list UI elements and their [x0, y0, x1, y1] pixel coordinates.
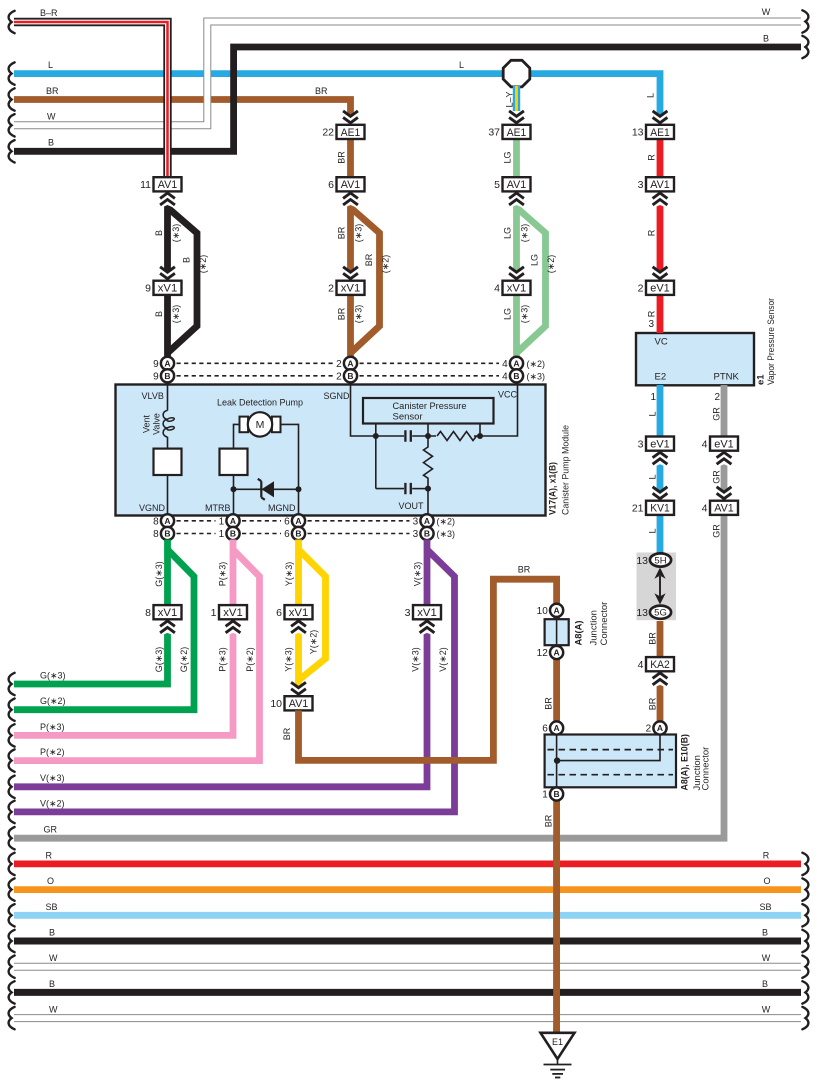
svg-text:5H: 5H — [654, 556, 666, 567]
svg-text:AV1: AV1 — [507, 179, 527, 191]
svg-text:5G: 5G — [654, 608, 667, 619]
zener diode — [262, 481, 275, 497]
svg-text:LG: LG — [503, 308, 513, 320]
wire G green branch bus G(*2) — [14, 550, 194, 710]
connector 3 xV1 — [405, 605, 441, 619]
arrows into bottom xV1 row — [158, 619, 177, 637]
svg-text:eV1: eV1 — [650, 283, 670, 295]
module pins 3A 3B — [413, 514, 434, 527]
svg-text:37: 37 — [488, 127, 500, 139]
svg-text:2: 2 — [646, 724, 652, 735]
svg-text:B: B — [762, 928, 768, 938]
wire MTRB-MGND link with zener — [234, 488, 299, 490]
svg-text:M: M — [256, 419, 265, 431]
svg-text:B: B — [154, 311, 164, 317]
module pins 9A 9B — [153, 357, 174, 370]
svg-text:1: 1 — [211, 607, 217, 619]
svg-text:L: L — [648, 528, 658, 533]
left break squiggles for top buses — [9, 11, 15, 33]
svg-text:3: 3 — [648, 319, 654, 330]
svg-text:SB: SB — [46, 902, 58, 912]
svg-text:W: W — [762, 953, 771, 963]
wire V purple branch bus V(*2) — [14, 550, 455, 812]
svg-text:W: W — [762, 7, 771, 17]
wire SB sky blue bus — [14, 912, 801, 919]
connector 11 AV1 — [140, 177, 181, 191]
svg-text:(∗3): (∗3) — [520, 224, 530, 243]
svg-text:(∗2): (∗2) — [527, 359, 546, 369]
wire L blue from E2 — [657, 385, 664, 553]
connector 5 AV1 — [494, 177, 530, 191]
svg-text:6: 6 — [284, 529, 290, 540]
svg-text:W: W — [47, 112, 56, 122]
arrows out of eV1 boxes — [651, 451, 670, 469]
svg-text:BR: BR — [46, 86, 59, 96]
svg-text:G(∗2): G(∗2) — [40, 696, 66, 706]
wire LG branch (*2) column 3 — [517, 208, 546, 354]
bold double arrow between 5H and 5G — [659, 576, 661, 598]
arrows into AE1 row — [341, 109, 360, 125]
svg-text:13: 13 — [636, 607, 648, 619]
connector 3 AV1 — [638, 177, 674, 191]
wire P pink branch bus P(*2) — [14, 550, 260, 761]
connector 13 AE1 — [632, 125, 674, 139]
module pins 4A 4B — [502, 357, 523, 370]
svg-text:R: R — [647, 154, 657, 161]
svg-text:AE1: AE1 — [341, 127, 361, 139]
connector 22 AE1 — [322, 125, 364, 139]
svg-text:B: B — [762, 979, 768, 989]
left break squiggles for bottom buses — [9, 673, 15, 695]
svg-text:BR: BR — [544, 697, 554, 710]
svg-text:W: W — [762, 1005, 771, 1015]
svg-text:9: 9 — [153, 371, 159, 382]
svg-text:BR: BR — [282, 727, 292, 740]
svg-text:B: B — [295, 529, 301, 539]
wire VOUT to pin — [427, 489, 429, 515]
vent valve solenoid box — [154, 449, 182, 475]
svg-text:MGND: MGND — [268, 503, 296, 513]
svg-text:6: 6 — [276, 607, 282, 619]
svg-text:GR: GR — [712, 470, 722, 484]
svg-text:1: 1 — [219, 516, 225, 527]
svg-text:Y(∗2): Y(∗2) — [309, 630, 319, 655]
svg-text:4: 4 — [638, 659, 644, 671]
svg-text:Vent: Vent — [142, 414, 152, 433]
svg-text:3: 3 — [413, 529, 419, 540]
svg-text:eV1: eV1 — [650, 439, 670, 451]
svg-text:9: 9 — [145, 283, 151, 295]
svg-text:Sensor: Sensor — [393, 412, 423, 423]
svg-text:1: 1 — [219, 529, 225, 540]
wire P pink main with bus P(*3) — [14, 540, 233, 736]
svg-text:22: 22 — [322, 127, 334, 139]
MTRB driver box — [220, 449, 248, 475]
svg-text:AE1: AE1 — [650, 127, 670, 139]
connector 10 AV1 — [270, 696, 312, 710]
connector 4 AV1 right — [702, 501, 738, 515]
svg-text:G(∗3): G(∗3) — [154, 561, 164, 587]
svg-text:1: 1 — [542, 790, 548, 801]
svg-text:VCC: VCC — [498, 390, 518, 400]
wire W white bus 2 — [14, 1014, 801, 1022]
svg-text:LG: LG — [503, 151, 513, 163]
svg-text:Vapor Pressure Sensor: Vapor Pressure Sensor — [766, 298, 777, 385]
connector 6 AV1 — [328, 177, 364, 191]
svg-text:W: W — [49, 1005, 58, 1015]
module pins 8A 8B — [153, 514, 174, 527]
arrows out of AV1 row — [158, 191, 177, 209]
svg-text:(∗3): (∗3) — [171, 305, 181, 324]
svg-text:8: 8 — [153, 516, 159, 527]
svg-text:Valve: Valve — [152, 413, 162, 435]
canister pressure sensor box — [363, 398, 494, 424]
wire motor right to MGND — [280, 424, 299, 514]
svg-text:LG: LG — [530, 254, 540, 266]
svg-text:3: 3 — [638, 438, 644, 450]
svg-text:V(∗2): V(∗2) — [40, 798, 65, 808]
svg-text:B: B — [347, 371, 353, 381]
svg-text:(∗2): (∗2) — [198, 255, 208, 274]
svg-text:L: L — [648, 411, 658, 416]
svg-text:VLVB: VLVB — [142, 391, 164, 401]
svg-text:A: A — [554, 723, 560, 733]
svg-text:P(∗2): P(∗2) — [245, 647, 255, 672]
vent valve wire and coil — [167, 385, 169, 411]
pin 6 A — [542, 721, 563, 734]
pin 12 A — [537, 646, 564, 659]
svg-text:G(∗2): G(∗2) — [179, 647, 189, 673]
svg-text:GR: GR — [44, 825, 58, 835]
svg-text:AV1: AV1 — [289, 698, 309, 710]
connector 4 eV1 — [702, 437, 738, 451]
svg-text:B: B — [48, 138, 54, 148]
svg-text:SGND: SGND — [323, 391, 350, 401]
svg-text:P(∗2): P(∗2) — [40, 747, 65, 757]
svg-text:R: R — [763, 850, 770, 860]
junction connector A8(A) small — [545, 619, 569, 645]
arrows into KV1/AV1 — [651, 485, 670, 501]
module pins 6A 6B — [284, 514, 305, 527]
svg-text:xV1: xV1 — [417, 607, 437, 619]
svg-text:E1: E1 — [552, 1037, 563, 1047]
resistor horizontal — [437, 432, 477, 441]
svg-text:10: 10 — [537, 606, 549, 617]
svg-text:1: 1 — [650, 392, 656, 403]
svg-text:KV1: KV1 — [650, 503, 670, 515]
svg-text:A8(A), E10(B): A8(A), E10(B) — [680, 734, 691, 791]
svg-text:R: R — [46, 850, 53, 860]
squiggles bottom buses left — [9, 853, 15, 875]
svg-text:Y(∗3): Y(∗3) — [284, 647, 294, 672]
svg-text:(∗3): (∗3) — [354, 224, 364, 243]
wire W white bus 1 — [14, 963, 801, 971]
capacitor upper — [405, 430, 410, 441]
connector 9 xV1 — [145, 281, 181, 295]
pin 1 B — [542, 787, 563, 800]
svg-text:B: B — [230, 529, 236, 539]
svg-text:SB: SB — [759, 902, 771, 912]
svg-text:6: 6 — [284, 516, 290, 527]
wire Y yellow main — [295, 540, 302, 698]
svg-text:Connector: Connector — [701, 747, 712, 791]
svg-text:BR: BR — [544, 814, 554, 827]
svg-text:G(∗3): G(∗3) — [40, 671, 66, 681]
svg-text:KA2: KA2 — [650, 659, 670, 671]
svg-text:Canister Pressure: Canister Pressure — [393, 401, 467, 412]
sensor junction dots — [373, 433, 379, 439]
svg-text:4: 4 — [702, 503, 708, 515]
svg-text:BR: BR — [518, 565, 531, 575]
connector 6 xV1 — [276, 605, 312, 619]
svg-text:L: L — [648, 474, 658, 479]
svg-text:(∗3): (∗3) — [354, 305, 364, 324]
svg-text:(∗3): (∗3) — [527, 371, 546, 381]
svg-text:2: 2 — [714, 392, 720, 403]
wire BR main column 2 — [347, 139, 354, 358]
sensor circuit wires — [351, 385, 405, 437]
svg-text:LG: LG — [503, 227, 513, 239]
svg-text:V(∗3): V(∗3) — [413, 562, 423, 587]
svg-text:B: B — [513, 371, 519, 381]
svg-text:e1: e1 — [756, 374, 767, 385]
module pins 1A 1B — [219, 514, 240, 527]
svg-text:8: 8 — [145, 607, 151, 619]
arrows into xV1 row — [158, 265, 177, 281]
wire G green main with bus G(*3) — [14, 540, 168, 685]
svg-text:(∗3): (∗3) — [437, 529, 456, 539]
wire BR from 10 AV1 to junction connector A8(A) — [299, 579, 557, 760]
svg-text:VGND: VGND — [139, 503, 166, 513]
wire L-Y striped from splice — [513, 86, 520, 111]
wire W top bus (hollow white wire) — [14, 22, 801, 126]
svg-text:4: 4 — [494, 283, 500, 295]
svg-text:AV1: AV1 — [158, 179, 178, 191]
svg-text:AE1: AE1 — [507, 127, 527, 139]
svg-text:E2: E2 — [655, 372, 667, 383]
svg-text:G(∗3): G(∗3) — [154, 647, 164, 673]
wire V purple main with bus V(*3) — [14, 540, 427, 787]
svg-text:BR: BR — [364, 253, 374, 266]
svg-text:xV1: xV1 — [289, 607, 309, 619]
wire BR over buses (redraw on top) — [553, 836, 560, 1033]
svg-text:4: 4 — [702, 438, 708, 450]
wire B branch (*2) column 1 — [168, 208, 198, 354]
svg-text:VC: VC — [655, 337, 668, 348]
svg-text:(∗3): (∗3) — [171, 224, 181, 243]
svg-text:(∗2): (∗2) — [437, 516, 456, 526]
svg-text:BR: BR — [648, 697, 658, 710]
connector 4 xV1 — [494, 281, 530, 295]
svg-text:A8(A): A8(A) — [574, 621, 585, 646]
svg-text:(∗3): (∗3) — [520, 305, 530, 324]
squiggles bottom buses right — [802, 853, 808, 875]
connector 3 eV1 — [638, 437, 674, 451]
capacitor lower — [376, 488, 404, 490]
svg-text:A: A — [164, 516, 170, 526]
wire motor left to MTRB box — [234, 424, 241, 448]
svg-text:AV1: AV1 — [341, 179, 361, 191]
svg-text:Y(∗3): Y(∗3) — [284, 562, 294, 587]
oval connector 13 5H — [650, 553, 671, 566]
svg-text:B: B — [164, 371, 170, 381]
dashed links top pin rows — [177, 362, 334, 364]
wire R red column 4 — [657, 139, 664, 333]
connector 2 eV1 — [638, 281, 674, 295]
svg-text:PTNK: PTNK — [714, 372, 740, 383]
wire LG main column 3 — [513, 139, 520, 358]
svg-text:3: 3 — [413, 516, 419, 527]
svg-text:5: 5 — [494, 179, 500, 191]
wire MTRB box to pin — [233, 475, 235, 514]
svg-text:B: B — [164, 529, 170, 539]
gray block behind 5H/5G connectors — [637, 553, 677, 621]
svg-text:Leak Detection Pump: Leak Detection Pump — [217, 398, 303, 409]
svg-text:(∗2): (∗2) — [546, 255, 556, 274]
svg-text:3: 3 — [405, 607, 411, 619]
wire B-R black-red striped — [14, 22, 168, 178]
svg-text:O: O — [763, 876, 770, 886]
svg-text:4: 4 — [502, 371, 508, 382]
wire BR junction 1B to ground — [553, 794, 560, 1033]
svg-text:L: L — [459, 60, 464, 70]
svg-text:V17(A), x1(B): V17(A), x1(B) — [548, 462, 559, 515]
svg-text:A: A — [164, 358, 170, 368]
right break squiggles for top buses — [802, 10, 808, 32]
svg-text:xV1: xV1 — [158, 607, 178, 619]
svg-text:VOUT: VOUT — [398, 501, 424, 511]
svg-text:BR: BR — [337, 151, 347, 164]
svg-text:BR: BR — [337, 226, 347, 239]
svg-text:A: A — [513, 358, 519, 368]
wire L blue bus — [14, 74, 660, 125]
svg-text:A: A — [230, 516, 236, 526]
svg-text:BR: BR — [648, 632, 658, 645]
svg-text:4: 4 — [502, 359, 508, 370]
junction dot MGND — [296, 486, 302, 492]
module pins 2A 2B — [336, 357, 357, 370]
svg-text:A: A — [424, 516, 430, 526]
wire R red bus — [14, 861, 801, 868]
svg-text:P(∗3): P(∗3) — [218, 562, 228, 587]
wire B black bus 1 — [14, 938, 801, 945]
junction dot MTRB — [231, 486, 237, 492]
svg-text:A: A — [295, 516, 301, 526]
connector 21 KV1 — [632, 501, 674, 515]
vapor pressure sensor e1 body — [636, 333, 754, 385]
svg-text:xV1: xV1 — [341, 283, 361, 295]
svg-text:P(∗3): P(∗3) — [218, 647, 228, 672]
svg-text:V(∗3): V(∗3) — [411, 647, 421, 672]
connector 4 KA2 — [638, 657, 674, 671]
canister pump module V17(A),x1(B) body — [116, 385, 546, 516]
connector 37 AE1 — [488, 125, 530, 139]
splice octagon on L wire — [503, 60, 530, 87]
svg-text:L: L — [646, 93, 656, 98]
svg-text:2: 2 — [336, 359, 342, 370]
svg-text:B: B — [763, 34, 769, 44]
svg-text:BR: BR — [337, 307, 347, 320]
svg-text:GR: GR — [712, 524, 722, 538]
svg-text:A: A — [554, 648, 560, 658]
wire B black bus 2 — [14, 989, 801, 996]
svg-text:AV1: AV1 — [714, 503, 734, 515]
svg-text:V(∗3): V(∗3) — [40, 773, 65, 783]
svg-text:Canister Pump Module: Canister Pump Module — [561, 425, 572, 515]
svg-text:A: A — [554, 605, 560, 615]
svg-text:O: O — [47, 876, 54, 886]
svg-text:13: 13 — [636, 555, 648, 567]
svg-text:A: A — [347, 358, 353, 368]
svg-text:B: B — [424, 529, 430, 539]
wire Y yellow branch (*2) — [299, 550, 326, 680]
svg-text:3: 3 — [638, 179, 644, 191]
svg-text:Junction: Junction — [589, 610, 600, 645]
svg-text:A: A — [657, 723, 663, 733]
svg-text:2: 2 — [638, 283, 644, 295]
svg-text:xV1: xV1 — [223, 607, 243, 619]
resistor vertical — [424, 439, 433, 489]
wire GR gray from PTNK to bus — [14, 385, 724, 838]
wire BR brown bus — [14, 100, 351, 126]
pin 2 A — [646, 721, 667, 734]
wire BR branch (*2) column 2 — [351, 208, 380, 354]
svg-text:GR: GR — [712, 407, 722, 421]
svg-text:12: 12 — [537, 648, 549, 659]
svg-text:AV1: AV1 — [650, 179, 670, 191]
svg-text:B: B — [182, 257, 192, 263]
svg-text:B: B — [49, 979, 55, 989]
svg-text:2: 2 — [336, 371, 342, 382]
svg-text:9: 9 — [153, 359, 159, 370]
pin 10 A — [537, 604, 564, 617]
svg-text:B–R: B–R — [40, 8, 58, 18]
svg-text:13: 13 — [632, 127, 644, 139]
svg-text:P(∗3): P(∗3) — [40, 722, 65, 732]
svg-text:6: 6 — [542, 724, 548, 735]
svg-text:BR: BR — [315, 86, 328, 96]
pump motor M — [240, 417, 249, 433]
svg-text:21: 21 — [632, 503, 644, 515]
svg-text:W: W — [49, 953, 58, 963]
svg-text:R: R — [647, 310, 657, 317]
svg-text:MTRB: MTRB — [205, 503, 231, 513]
svg-text:6: 6 — [328, 179, 334, 191]
wire O orange bus — [14, 886, 801, 893]
oval connector 13 5G — [650, 606, 671, 619]
svg-text:L–Y: L–Y — [505, 91, 515, 107]
svg-text:eV1: eV1 — [714, 439, 734, 451]
ground E1 — [541, 1033, 575, 1059]
svg-text:xV1: xV1 — [158, 283, 178, 295]
svg-text:B: B — [554, 789, 560, 799]
svg-text:V(∗2): V(∗2) — [438, 647, 448, 672]
svg-text:R: R — [647, 229, 657, 236]
wire BR from 5G to KA2 to 2A — [657, 621, 664, 722]
connector 1 xV1 — [211, 605, 247, 619]
svg-text:Connector: Connector — [599, 602, 610, 646]
arrows out of KA2 — [651, 671, 670, 689]
svg-text:11: 11 — [140, 179, 151, 191]
svg-text:(∗2): (∗2) — [381, 255, 391, 274]
svg-text:xV1: xV1 — [507, 283, 527, 295]
connector 8 xV1 — [145, 605, 181, 619]
svg-text:2: 2 — [328, 283, 334, 295]
junction connector A8(A),E10(B) large — [545, 735, 676, 788]
svg-text:10: 10 — [270, 698, 282, 710]
svg-text:8: 8 — [153, 529, 159, 540]
svg-text:L: L — [48, 60, 53, 70]
